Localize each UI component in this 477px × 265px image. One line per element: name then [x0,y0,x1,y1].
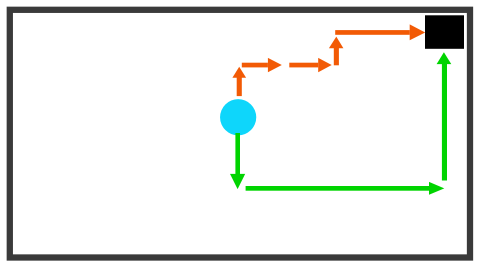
green arrow down from circle [230,133,245,189]
green arrow right (long, along bottom) [246,182,445,195]
goal square (black) [425,15,464,49]
agent node (cyan circle) [220,99,256,135]
orange arrow right (long, into goal) [335,24,425,40]
orange arrow up (to top row) [329,37,344,66]
green arrow up (to goal) [437,52,452,180]
orange arrow right (second dash) [289,58,331,72]
orange arrow up from circle [232,67,246,96]
orange arrow right (first dash) [242,58,282,72]
